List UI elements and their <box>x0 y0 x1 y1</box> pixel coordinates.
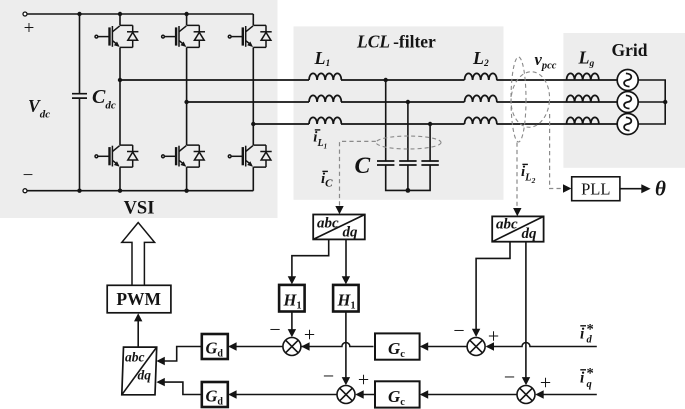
summing junction sum1 <box>283 338 301 356</box>
svg-text:i: i <box>580 326 585 343</box>
wire sum4 to Gc2 <box>421 394 517 396</box>
measurement ellipse vpcc <box>509 70 551 128</box>
capacitor Cdc <box>72 14 87 191</box>
svg-text:θ: θ <box>655 177 666 201</box>
svg-text:−: − <box>504 367 515 389</box>
svg-text:vpcc: vpcc <box>535 50 557 72</box>
arrow into H1 right <box>342 276 350 284</box>
label iL1 <box>313 130 327 151</box>
node phase C junction <box>251 122 255 126</box>
summing junction sum4 <box>517 386 535 404</box>
arrow sum3 into Gc1 <box>420 342 428 350</box>
svg-text:i: i <box>580 370 585 387</box>
wire iq* reference <box>537 394 597 396</box>
background panel LCL filter <box>294 26 504 199</box>
block Gd2 <box>202 382 228 408</box>
wire sum1 to Gd1 <box>230 346 283 348</box>
arrow vpcc into PLL <box>563 184 571 192</box>
arrow into H1 left <box>288 276 296 284</box>
summing junction sum3 <box>467 338 485 356</box>
arrow id* into sum3 <box>486 342 494 350</box>
wire DC+ rail <box>27 13 253 15</box>
svg-text:*: * <box>587 366 594 382</box>
block abc/dq current transform <box>313 215 365 241</box>
block PWM <box>107 285 171 313</box>
arrow iq* into sum4 <box>535 390 543 398</box>
wire abc/dq control to PWM <box>137 320 139 348</box>
wire H1 right down to sum2 <box>345 312 347 379</box>
svg-text:dq: dq <box>138 368 152 383</box>
label id* <box>580 322 594 346</box>
wire phase A <box>120 79 617 81</box>
svg-text:−: − <box>23 165 34 186</box>
wire iL2 dashed to abc/dq <box>516 143 518 210</box>
inductor L1 phase C <box>309 117 341 124</box>
svg-text:+: + <box>304 324 315 346</box>
label iC <box>321 171 333 190</box>
block H1 right <box>333 285 359 312</box>
wire phase C <box>253 123 617 125</box>
svg-text:−: − <box>269 319 280 341</box>
block PLL <box>572 177 620 201</box>
node phase A junction <box>118 78 122 82</box>
svg-text:dq: dq <box>522 226 538 242</box>
transistor Q1 <box>95 25 138 47</box>
svg-text:+: + <box>488 326 499 348</box>
arrow Gc1 into sum1 <box>301 342 309 350</box>
wire Gd2 to abc/dq control <box>158 382 202 394</box>
wire capacitor tap B <box>407 102 409 162</box>
capacitor C phase C <box>421 161 438 165</box>
block abc/dq control transform <box>122 347 157 395</box>
inductor Lg phase B <box>567 95 599 102</box>
wire abc/dq to H1 left <box>292 239 329 277</box>
arrow hollow PWM to VSI <box>122 223 155 286</box>
block abc/dq grid current transform <box>492 216 543 242</box>
arrow iC into abc/dq <box>335 206 343 214</box>
svg-text:dq: dq <box>343 225 359 241</box>
arrow into sum4 top <box>522 377 530 385</box>
block Gc2 <box>375 381 420 408</box>
source grid B <box>617 92 638 113</box>
block Gc1 <box>375 333 420 360</box>
node cap tap A <box>384 78 388 82</box>
wire sum1 row with hop <box>301 343 374 347</box>
wire abc/dq2 right output to sum4 <box>525 242 527 379</box>
wire leg C vertical <box>252 14 254 191</box>
node phase B junction <box>184 100 188 104</box>
inductor Lg phase C <box>567 117 599 124</box>
node cap tap B <box>406 100 410 104</box>
label iL2 <box>521 164 536 185</box>
junction dots DC rails <box>77 12 189 193</box>
node star point <box>406 188 411 193</box>
wire id* reference with hop <box>487 343 597 347</box>
svg-text:C: C <box>355 153 371 179</box>
node grid bus <box>663 100 667 104</box>
svg-text:PWM: PWM <box>116 289 161 309</box>
wire DC- rail <box>27 190 253 192</box>
transistor Q4 <box>162 145 205 167</box>
wire abc/dq to H1 right <box>345 239 347 277</box>
wire sum2 to Gd2 <box>230 394 338 396</box>
arrow theta <box>641 184 650 193</box>
measurement ellipse iL2 <box>511 57 526 142</box>
wire leg A vertical <box>119 14 121 191</box>
arrow sum2 into Gd2 <box>228 390 236 398</box>
background panel VSI <box>0 0 278 218</box>
measurement ellipse iC <box>376 136 441 149</box>
wire phase B <box>187 101 618 103</box>
arrow into sum1 top <box>288 329 296 337</box>
node DC- terminal <box>23 189 27 193</box>
block H1 left <box>279 285 305 312</box>
arrow sum1 into Gd1 <box>228 342 236 350</box>
arrow Gd1 into abc/dq control <box>156 357 164 365</box>
wire sum3 to Gc1 <box>421 346 467 348</box>
inductor L1 phase B <box>309 95 341 102</box>
inductor Lg phase A <box>567 73 599 80</box>
svg-text:*: * <box>587 322 594 338</box>
capacitor C phase A <box>377 161 394 165</box>
svg-text:VSI: VSI <box>124 199 155 219</box>
wire H1 left to sum1 <box>291 312 293 331</box>
wire Gd1 to abc/dq control <box>158 347 202 362</box>
transistor Q2 <box>95 145 138 167</box>
arrow Gd2 into abc/dq control <box>156 378 164 386</box>
node DC+ terminal <box>23 12 27 16</box>
svg-text:abc: abc <box>125 350 145 365</box>
transistor Q3 <box>162 25 205 47</box>
transistor Q6 <box>228 145 271 167</box>
svg-text:LCL-filter: LCL-filter <box>356 32 436 52</box>
svg-text:Grid: Grid <box>612 40 648 60</box>
background panel Grid <box>563 33 685 168</box>
node cap tap C <box>428 122 432 126</box>
arrow into sum3 top <box>472 329 480 337</box>
svg-text:iL2: iL2 <box>521 164 536 185</box>
arrow iL2 into abc/dq <box>513 208 521 216</box>
wire capacitor tap A <box>385 80 387 162</box>
arrow into PWM <box>134 313 142 321</box>
svg-text:PLL: PLL <box>581 179 610 198</box>
wire leg B vertical <box>186 14 188 191</box>
svg-text:+: + <box>24 18 35 39</box>
source grid C <box>617 114 638 135</box>
inductor L2 phase C <box>465 117 497 124</box>
transistor Q5 <box>228 25 271 47</box>
svg-text:−: − <box>453 320 464 342</box>
wire capacitor star point <box>386 165 430 190</box>
inductor L2 phase A <box>465 73 497 80</box>
svg-text:−: − <box>323 366 334 388</box>
svg-text:+: + <box>540 372 551 394</box>
summing junction sum2 <box>337 386 355 404</box>
svg-text:+: + <box>358 369 369 391</box>
label iq* <box>580 366 594 391</box>
block Gd1 <box>202 334 228 360</box>
wire iC dashed to abc/dq <box>340 141 376 207</box>
wire abc/dq2 to sum3 <box>476 242 510 331</box>
arrow sum4 into Gc2 <box>420 390 428 398</box>
wire vpcc dashed to PLL <box>550 114 563 189</box>
capacitor C phase B <box>399 161 416 165</box>
arrow Gc2 into sum2 <box>355 390 363 398</box>
source grid A <box>617 70 638 91</box>
wire grid neutral bus <box>638 80 665 124</box>
wire capacitor tap C <box>429 124 431 162</box>
arrow into sum2 top <box>342 377 350 385</box>
svg-text:abc: abc <box>317 216 339 232</box>
wire Gc2 to sum2 <box>357 394 376 396</box>
inductor L1 phase A <box>309 73 341 80</box>
inductor L2 phase B <box>465 95 497 102</box>
svg-text:abc: abc <box>496 217 518 233</box>
wire PLL to theta <box>620 188 642 190</box>
